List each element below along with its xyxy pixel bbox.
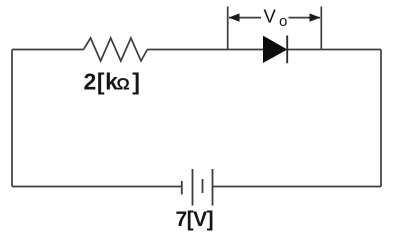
node tick right of Vo: [320, 7, 322, 51]
svg-text:7[V]: 7[V]: [176, 208, 214, 231]
arrow left: [229, 13, 240, 21]
svg-text:V: V: [264, 6, 277, 27]
label Vo: [264, 6, 288, 31]
wire left: [11, 50, 13, 187]
svg-text:2[kΩ]: 2[kΩ]: [84, 69, 140, 95]
wire top right: [287, 49, 381, 51]
battery B1: [182, 169, 213, 206]
wire top middle: [147, 49, 263, 51]
diode D1: [264, 36, 288, 64]
svg-text:o: o: [279, 13, 287, 30]
resistor R1: [84, 38, 148, 61]
wire bottom left: [12, 186, 182, 188]
wire top: [12, 49, 84, 51]
wire right: [380, 50, 382, 187]
wire bottom right: [213, 186, 382, 188]
dimension line right: [289, 17, 321, 19]
node tick left of Vo: [227, 7, 229, 51]
arrow right: [310, 13, 321, 21]
dimension line left: [229, 17, 261, 19]
